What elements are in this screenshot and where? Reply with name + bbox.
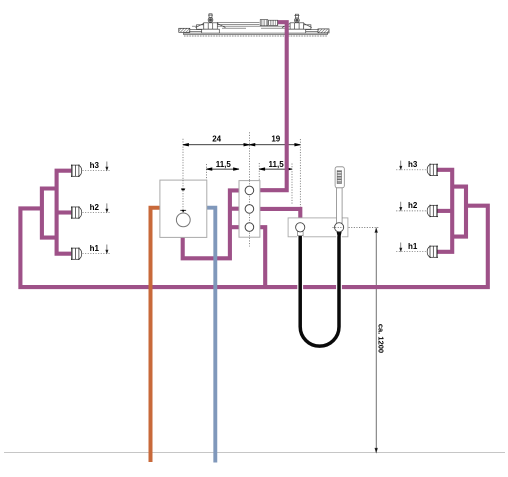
svg-text:24: 24 (212, 135, 221, 144)
svg-text:h3: h3 (90, 161, 100, 170)
svg-text:h2: h2 (408, 201, 418, 210)
svg-text:11,5: 11,5 (269, 160, 285, 169)
svg-text:h1: h1 (90, 244, 100, 253)
svg-text:h1: h1 (408, 242, 418, 251)
svg-text:11,5: 11,5 (216, 160, 232, 169)
svg-text:ca. 1200: ca. 1200 (377, 324, 386, 353)
svg-text:19: 19 (271, 135, 280, 144)
svg-text:h3: h3 (408, 160, 418, 169)
svg-text:h2: h2 (90, 203, 100, 212)
